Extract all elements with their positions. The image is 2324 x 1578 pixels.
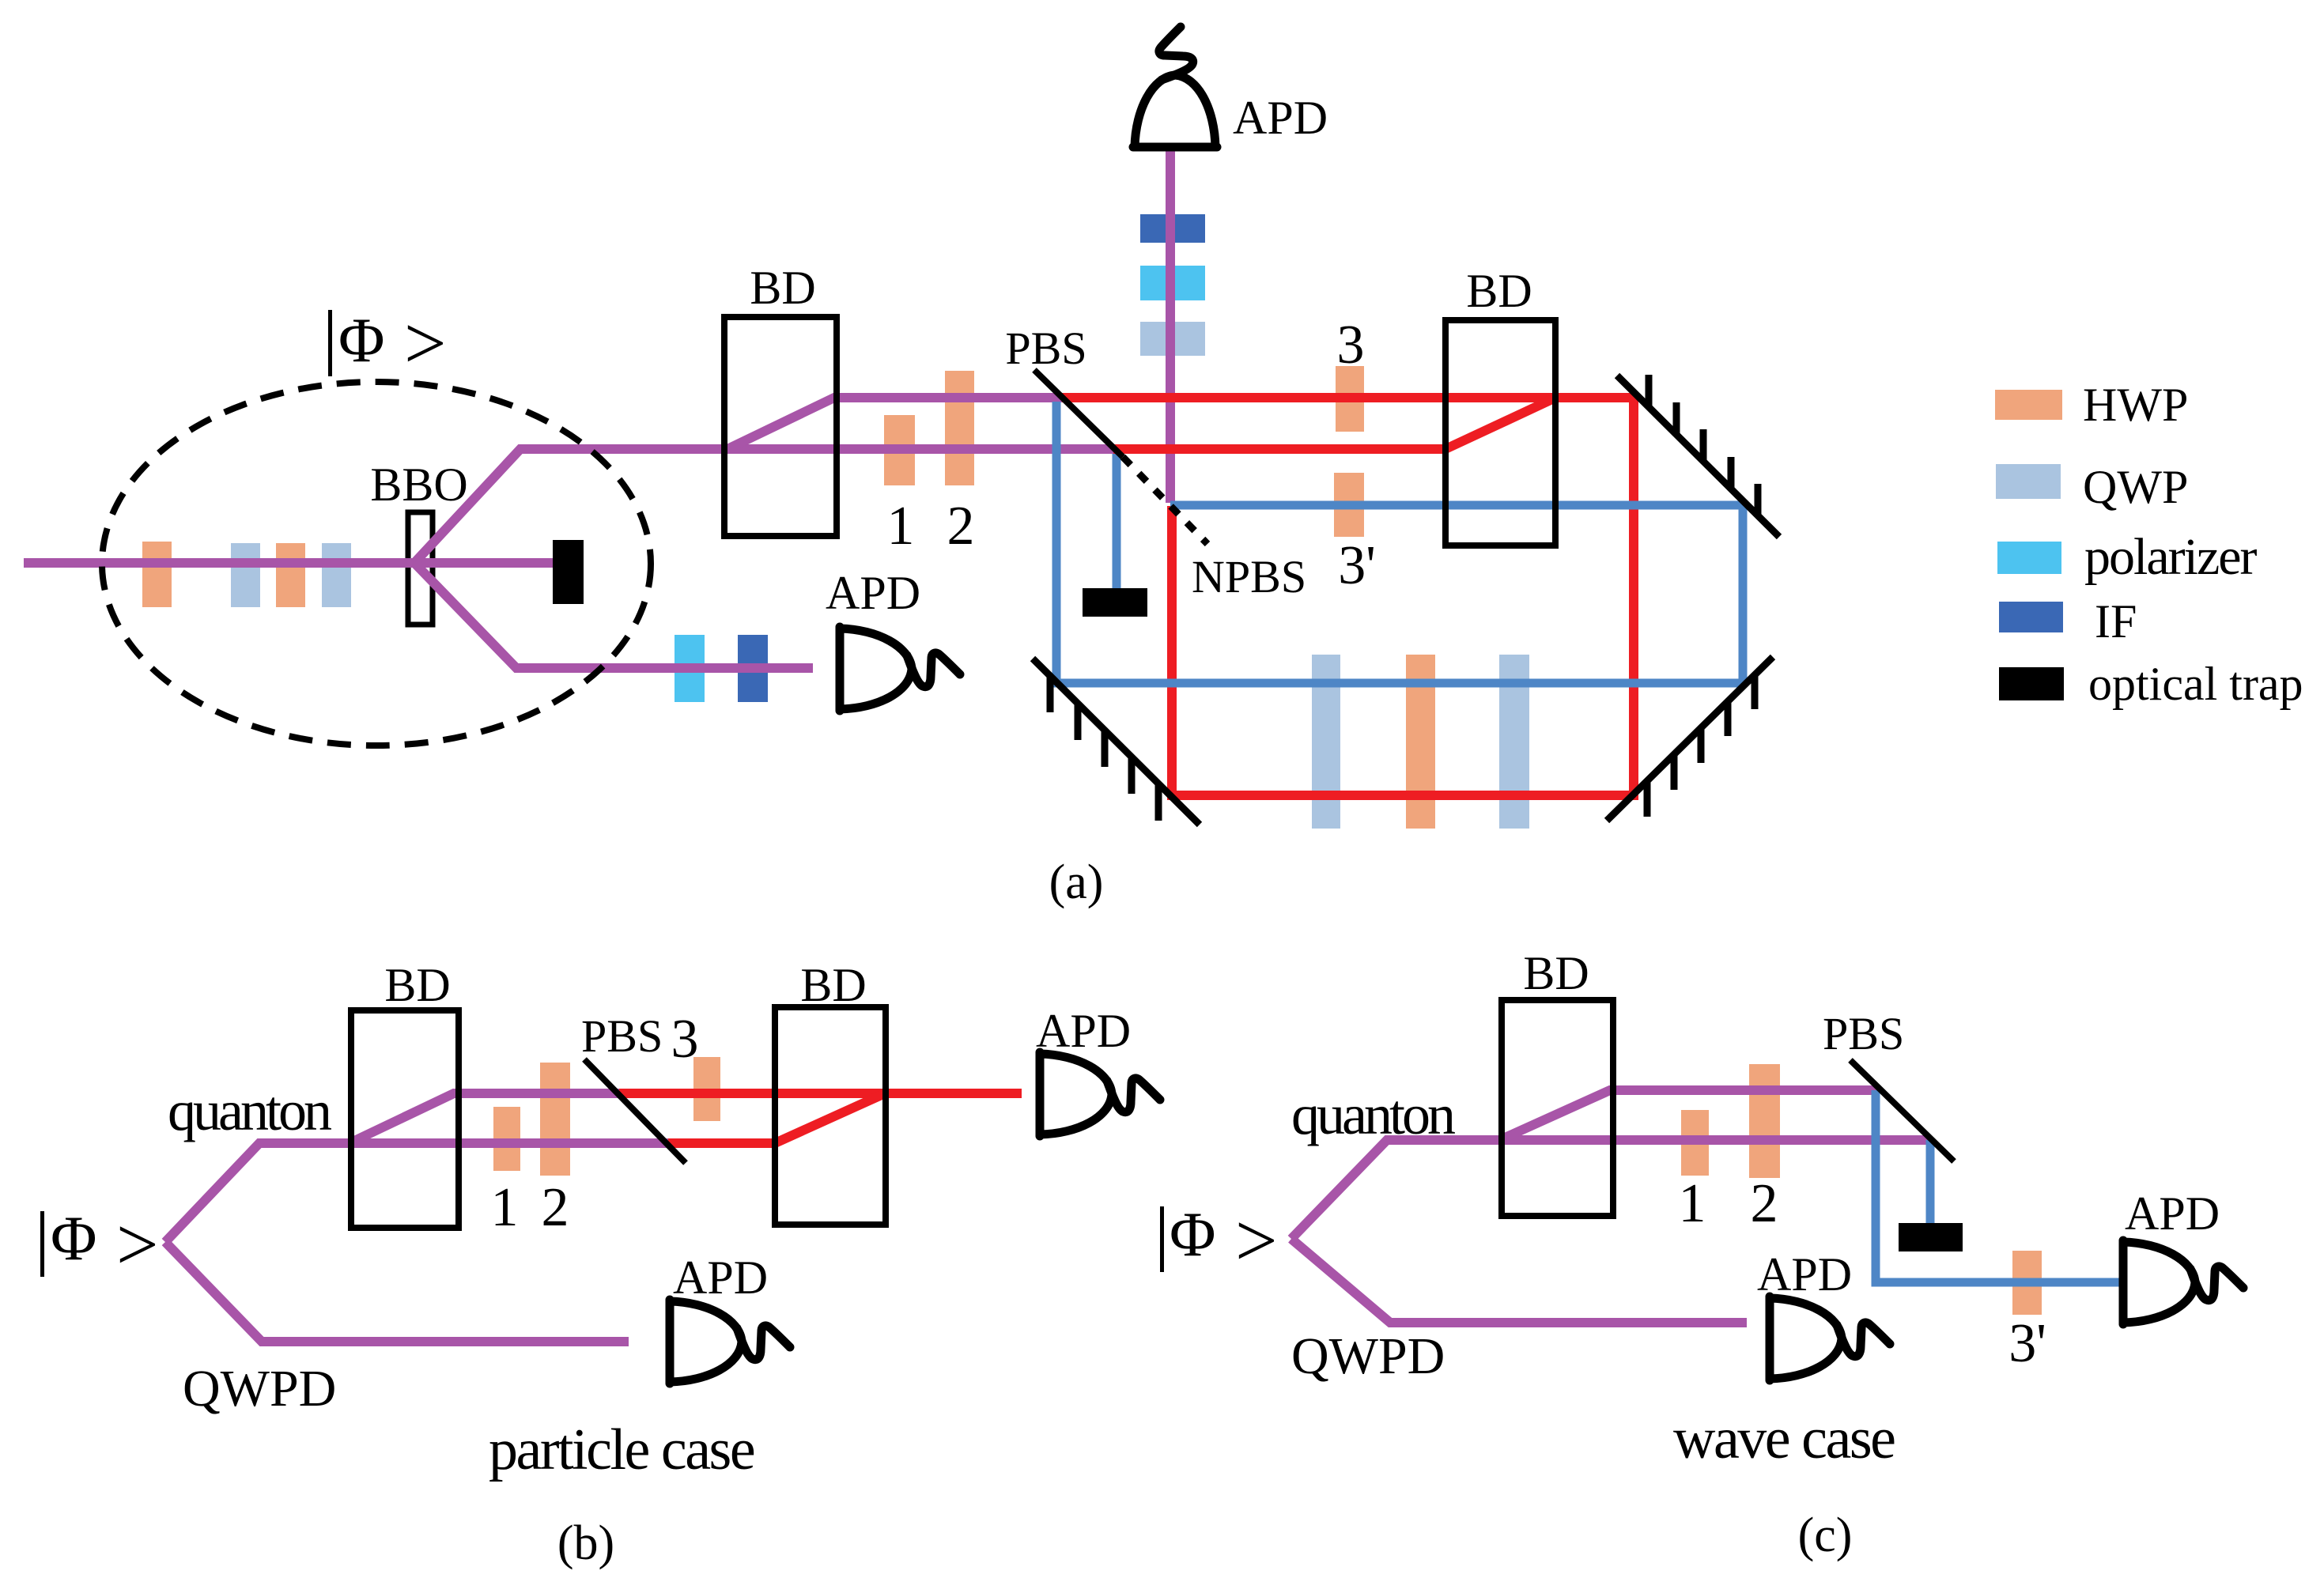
svg-text:PBS: PBS xyxy=(1005,323,1086,374)
wire: idler beam lower diagonal from BBO xyxy=(414,563,813,668)
HWP 3 b xyxy=(693,1057,720,1121)
PBS diagonal xyxy=(1034,370,1123,457)
HWP bottom interferometer xyxy=(1406,655,1435,829)
PBS c diagonal xyxy=(1850,1060,1954,1161)
wire: BD1 displaced beam diagonal xyxy=(727,398,1064,449)
svg-text:Φ: Φ xyxy=(1170,1200,1215,1270)
state label ket bar b xyxy=(40,1211,44,1277)
svg-text:quanton: quanton xyxy=(168,1079,331,1142)
svg-text:2: 2 xyxy=(542,1177,569,1238)
svg-text:3: 3 xyxy=(671,1009,699,1070)
svg-text:1: 1 xyxy=(887,496,915,557)
wire: red lower b xyxy=(668,1138,778,1148)
svg-text:APD: APD xyxy=(2125,1187,2220,1240)
svg-text:PBS: PBS xyxy=(581,1010,663,1062)
wire: blue reflected path c xyxy=(1876,1090,2121,1282)
mirror top right xyxy=(1617,375,1779,537)
svg-text:APD: APD xyxy=(1233,92,1328,144)
svg-text:(a): (a) xyxy=(1049,855,1104,909)
APD c bottom xyxy=(1770,1297,1890,1380)
BD 2 b xyxy=(775,1007,886,1225)
svg-text:>: > xyxy=(1235,1199,1278,1282)
wire: red lower segment to BD2 xyxy=(1113,444,1449,454)
svg-text:2: 2 xyxy=(1751,1173,1778,1234)
svg-text:3': 3' xyxy=(1338,535,1376,596)
svg-text:APD: APD xyxy=(1036,1005,1131,1057)
svg-text:APD: APD xyxy=(1757,1248,1852,1301)
HWP 2 c xyxy=(1749,1064,1780,1178)
svg-text:quanton: quanton xyxy=(1291,1083,1455,1146)
optical trap in ellipse xyxy=(553,540,584,604)
BBO crystal xyxy=(408,512,433,625)
APD b top right xyxy=(1040,1052,1160,1136)
state label ket bar c xyxy=(1160,1206,1164,1272)
PBS b diagonal xyxy=(584,1059,686,1163)
mirror bottom right xyxy=(1607,657,1773,821)
svg-text:Φ: Φ xyxy=(51,1204,96,1274)
svg-text:NPBS: NPBS xyxy=(1192,551,1306,602)
APD c right xyxy=(2123,1240,2243,1324)
BD 2 xyxy=(1445,320,1555,546)
QWP on vertical APD arm xyxy=(1140,322,1205,356)
svg-text:1: 1 xyxy=(1679,1173,1706,1234)
polarizer idler arm xyxy=(675,635,705,702)
svg-text:(b): (b) xyxy=(557,1516,614,1570)
HWP 2 b xyxy=(540,1063,570,1176)
svg-text:BD: BD xyxy=(384,959,450,1011)
optical trap c xyxy=(1899,1223,1963,1251)
wire: QWPD branch c xyxy=(1291,1239,1747,1323)
svg-text:BBO: BBO xyxy=(370,459,467,511)
HWP 1 b xyxy=(493,1107,520,1171)
optical trap below PBS xyxy=(1083,588,1147,617)
HWP 2 xyxy=(945,371,974,485)
wire: quanton branch b xyxy=(165,1143,668,1242)
svg-text:IF: IF xyxy=(2095,595,2137,647)
QWP bottom left interferometer xyxy=(1312,655,1340,829)
wire: blue drop to trap c xyxy=(1926,1140,1935,1225)
legend IF swatch xyxy=(1999,602,2063,632)
svg-text:QWPD: QWPD xyxy=(1291,1327,1445,1385)
svg-text:3': 3' xyxy=(2008,1313,2046,1374)
svg-text:optical trap: optical trap xyxy=(2088,658,2303,710)
BD c xyxy=(1502,1000,1613,1216)
svg-text:BD: BD xyxy=(750,262,815,314)
HWP 3' xyxy=(1334,473,1364,537)
wire: blue drop to optical trap xyxy=(1113,454,1121,591)
APD heralding (idler arm) xyxy=(840,627,960,711)
wire: quanton branch c xyxy=(1291,1140,1930,1239)
legend HWP swatch xyxy=(1995,390,2062,420)
wire: signal beam upper diagonal from BBO xyxy=(414,449,1121,563)
HWP 3' c xyxy=(2012,1251,2042,1315)
polarizer on vertical APD arm xyxy=(1140,266,1205,300)
mirror bottom left xyxy=(1033,659,1200,825)
svg-text:Φ: Φ xyxy=(338,306,384,376)
HWP pump a xyxy=(142,542,172,607)
wire: blue interferometer loop xyxy=(1056,402,1743,683)
BD 1 xyxy=(724,317,837,536)
svg-text:>: > xyxy=(404,301,447,385)
svg-text:(c): (c) xyxy=(1798,1508,1853,1562)
legend optical trap swatch xyxy=(1999,667,2064,700)
svg-text:BD: BD xyxy=(1523,947,1589,999)
svg-text:HWP: HWP xyxy=(2083,379,2188,431)
IF idler arm xyxy=(738,635,768,702)
BD 1 b xyxy=(351,1010,459,1228)
HWP 3 xyxy=(1336,366,1364,432)
svg-text:QWPD: QWPD xyxy=(183,1360,336,1418)
dashed ellipse state preparation xyxy=(102,382,651,746)
svg-text:2: 2 xyxy=(947,496,975,557)
IF on vertical APD arm xyxy=(1140,214,1205,243)
HWP pump a2 xyxy=(276,543,305,607)
svg-text:3: 3 xyxy=(1337,315,1365,376)
svg-text:polarizer: polarizer xyxy=(2084,528,2258,586)
svg-text:wave case: wave case xyxy=(1673,1406,1895,1471)
QWP pump a2 xyxy=(322,543,351,607)
QWP pump a1 xyxy=(231,543,260,607)
HWP 1 xyxy=(884,415,915,485)
svg-text:1: 1 xyxy=(491,1177,519,1238)
wire: pump beam input xyxy=(24,558,554,568)
state label ket bar a xyxy=(328,310,332,376)
wire: red interferometer loop xyxy=(1062,398,1634,795)
svg-text:APD: APD xyxy=(673,1251,768,1304)
legend QWP swatch xyxy=(1996,464,2061,499)
svg-text:BD: BD xyxy=(1466,265,1532,317)
svg-text:PBS: PBS xyxy=(1823,1008,1904,1059)
wire: QWPD branch b xyxy=(165,1242,629,1342)
wire: purple vertical to top APD xyxy=(1166,150,1175,503)
wire: red diagonal BD2 b xyxy=(775,1094,883,1143)
svg-text:particle case: particle case xyxy=(489,1418,754,1482)
APD b bottom xyxy=(670,1300,790,1384)
svg-text:>: > xyxy=(116,1202,159,1286)
legend polarizer swatch xyxy=(1997,542,2061,574)
svg-text:QWP: QWP xyxy=(2083,461,2188,513)
APD top (on vertical arm) xyxy=(1133,27,1217,147)
QWP bottom right interferometer xyxy=(1499,655,1529,829)
wire: BD c diagonal xyxy=(1503,1090,1876,1138)
svg-text:APD: APD xyxy=(826,567,920,619)
wire: red diagonal inside BD2 xyxy=(1445,399,1552,449)
wire: BD1 b diagonal xyxy=(353,1093,619,1142)
svg-text:BD: BD xyxy=(800,959,866,1011)
NPBS dotted diagonal xyxy=(1123,457,1207,544)
wire: red upper b xyxy=(619,1089,1022,1098)
HWP 1 c xyxy=(1681,1110,1709,1176)
